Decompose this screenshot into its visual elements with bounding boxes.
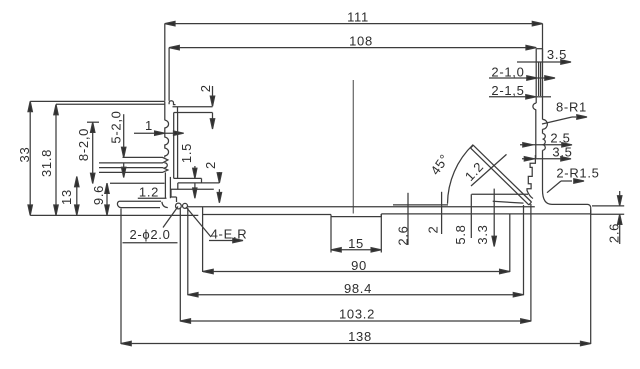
svg-text:9.6: 9.6 (91, 185, 106, 205)
wall inner top step (177, 107, 179, 113)
left wall outer line (164, 101, 166, 120)
right wall right bump (8-R1) (543, 119, 548, 129)
svg-text:90: 90 (351, 258, 367, 273)
dim 2 (top, wall step) (198, 84, 215, 129)
svg-text:3.3: 3.3 (475, 224, 490, 244)
svg-text:108: 108 (349, 34, 373, 49)
dim 3.3 (492, 189, 496, 247)
channel floor (188, 206, 535, 208)
screw hole circles (176, 203, 182, 209)
left fin 1 (99, 157, 168, 163)
right wall to base fillet (543, 190, 553, 204)
dim 3.5 (right lower) (522, 144, 573, 161)
svg-text:4-E.R: 4-E.R (211, 227, 248, 242)
centerline (352, 80, 354, 214)
svg-text:33: 33 (17, 147, 32, 163)
right wall left steps and foot (527, 158, 535, 199)
ledge-left extension line (110, 182, 165, 184)
svg-text:8-2,0: 8-2,0 (76, 128, 91, 161)
svg-text:5.8: 5.8 (453, 224, 468, 244)
dim 9.6 (105, 183, 109, 215)
thin sheet edge near 45 plate (393, 204, 448, 206)
svg-text:3.5: 3.5 (547, 47, 567, 62)
dim 1 (wall thickness) (134, 118, 184, 135)
svg-text:15: 15 (348, 236, 364, 251)
dim 33 (28, 101, 32, 215)
base top right (552, 203, 588, 205)
dim 5.8 (470, 194, 472, 238)
svg-text:1.2: 1.2 (139, 185, 159, 200)
dim 2-phi2.0 (123, 207, 179, 243)
wall foot steps (170, 189, 172, 197)
dim 5-2,0 (122, 114, 126, 177)
svg-text:31.8: 31.8 (39, 149, 54, 177)
dim 31.8 (54, 105, 58, 216)
bottom-left flange (117, 201, 161, 207)
45 degree plate (473, 145, 531, 202)
top screw-port bump (169, 101, 175, 105)
right wall left bump (533, 103, 536, 110)
right wall (536, 48, 542, 50)
dim 108 (169, 45, 536, 100)
svg-text:1.5: 1.5 (179, 143, 194, 163)
dim 2.5 (520, 131, 572, 148)
svg-text:2: 2 (426, 226, 441, 234)
svg-text:2: 2 (203, 161, 218, 169)
wall outer below fins (164, 172, 166, 198)
svg-text:98.4: 98.4 (344, 281, 372, 296)
dim 3.5 (top right) (517, 47, 571, 64)
extension lines for dim 2 (173, 106, 213, 108)
dim 1.5 (179, 143, 197, 198)
svg-text:2-1,0: 2-1,0 (491, 64, 524, 79)
dim 45 degrees arc (448, 145, 474, 204)
left fin 2 (99, 168, 168, 173)
PCB ledge lines (174, 177, 202, 179)
dim 2.6 (bottom center) (407, 193, 409, 245)
dim 90 (203, 215, 510, 274)
dim 8-R1 (542, 100, 587, 125)
svg-text:1: 1 (145, 118, 153, 133)
dim 1.2 (left flange) (138, 185, 167, 200)
dim 2 (left ledge) (203, 161, 222, 203)
dim 2 (bottom center) (441, 192, 443, 234)
dim 111 (165, 21, 543, 100)
svg-text:5-2,0: 5-2,0 (109, 110, 124, 143)
dim 98.4 (188, 205, 524, 297)
wall between fins (164, 163, 167, 168)
svg-text:2: 2 (198, 84, 213, 92)
svg-text:2-ϕ2.0: 2-ϕ2.0 (129, 227, 170, 242)
svg-text:111: 111 (347, 10, 369, 25)
step edge under plate (472, 193, 529, 195)
svg-text:13: 13 (59, 189, 74, 205)
svg-text:103.2: 103.2 (339, 307, 375, 322)
left dims bottom extension line (30, 214, 198, 216)
base bottom edges (203, 214, 331, 216)
right wall scallops (543, 134, 546, 151)
svg-text:2.6: 2.6 (607, 223, 622, 243)
dim 138 (121, 209, 591, 346)
top-left flange (30, 100, 165, 102)
dim 4-E.R (186, 207, 247, 243)
svg-text:8-R1: 8-R1 (556, 100, 587, 115)
dim 2-1,5 (489, 83, 551, 99)
svg-text:138: 138 (348, 329, 372, 344)
svg-text:2-1,5: 2-1,5 (491, 83, 524, 98)
dim 15 (331, 214, 381, 253)
wall inner line (173, 113, 175, 179)
svg-text:2-R1.5: 2-R1.5 (556, 165, 599, 180)
dim 8-2,0 (87, 122, 99, 183)
dim 103.2 (180, 204, 531, 323)
dim 2-1,0 (489, 64, 555, 80)
left wall scallops (165, 120, 169, 157)
dim 13 (75, 177, 79, 216)
svg-text:2.6: 2.6 (396, 225, 411, 245)
dim 2.6 (right side) (591, 191, 624, 244)
dim 2-R1.5 (547, 165, 600, 192)
